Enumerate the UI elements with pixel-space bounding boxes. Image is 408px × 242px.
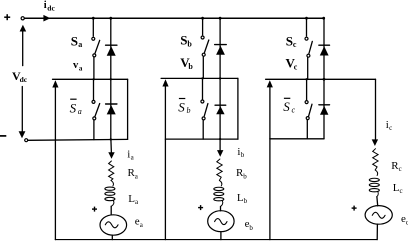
svg-text:c: c bbox=[389, 124, 392, 132]
svg-text:b: b bbox=[187, 106, 191, 115]
svg-text:a: a bbox=[79, 64, 83, 72]
svg-text:b: b bbox=[244, 197, 248, 205]
svg-text:S: S bbox=[178, 100, 185, 115]
svg-text:dc: dc bbox=[47, 3, 55, 12]
svg-text:b: b bbox=[187, 39, 192, 48]
svg-text:b: b bbox=[188, 62, 193, 71]
svg-text:S: S bbox=[71, 33, 78, 48]
svg-text:c: c bbox=[293, 40, 297, 49]
svg-text:c: c bbox=[400, 187, 403, 195]
svg-text:S: S bbox=[70, 101, 77, 116]
svg-text:c: c bbox=[294, 63, 298, 72]
svg-text:dc: dc bbox=[20, 75, 28, 84]
svg-text:c: c bbox=[292, 105, 296, 114]
svg-text:b: b bbox=[249, 224, 253, 232]
svg-text:S: S bbox=[180, 33, 187, 48]
svg-text:S: S bbox=[286, 33, 293, 48]
svg-text:b: b bbox=[241, 151, 245, 159]
svg-text:S: S bbox=[283, 99, 290, 114]
svg-text:a: a bbox=[78, 107, 82, 116]
svg-text:c: c bbox=[399, 165, 402, 173]
svg-text:b: b bbox=[243, 172, 247, 180]
svg-text:a: a bbox=[78, 40, 82, 49]
